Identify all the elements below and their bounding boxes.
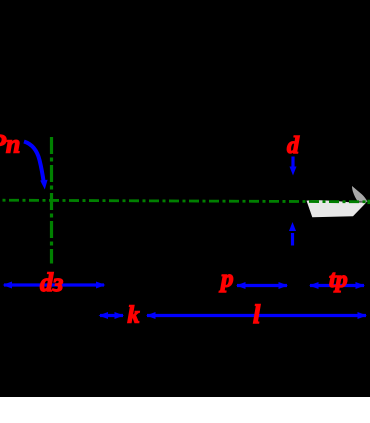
dz right arrowhead xyxy=(96,282,106,289)
tool chip flap xyxy=(352,186,368,202)
dimension l line xyxy=(147,314,366,317)
svg-text:Pn: Pn xyxy=(0,130,20,159)
k left arrowhead xyxy=(99,312,109,319)
horizontal centerline xyxy=(0,200,370,202)
svg-text:tp: tp xyxy=(329,267,348,293)
svg-text:l: l xyxy=(253,300,261,329)
rotation arrowhead xyxy=(40,180,47,190)
tp right arrowhead xyxy=(356,282,366,289)
rotation arrow (curved) xyxy=(24,142,44,185)
svg-text:d: d xyxy=(287,133,300,159)
l right arrowhead xyxy=(358,312,368,319)
p left arrowhead xyxy=(236,282,246,289)
d dimension lower arrow (points up) xyxy=(291,233,294,246)
cutting tool body xyxy=(307,200,367,217)
centerline end dash at right edge xyxy=(367,200,370,204)
l left arrowhead xyxy=(146,312,156,319)
d dimension upper arrow (points down) xyxy=(291,157,294,169)
dimension dz line xyxy=(4,283,104,286)
dimension p line xyxy=(237,284,287,287)
dimension tp line xyxy=(310,284,364,287)
vertical centerline xyxy=(50,137,53,264)
dimension k line xyxy=(100,314,123,317)
k right arrowhead xyxy=(115,312,125,319)
p right arrowhead xyxy=(279,282,289,289)
svg-text:k: k xyxy=(128,303,140,329)
dz left arrowhead xyxy=(3,282,13,289)
svg-text:p: p xyxy=(219,266,234,293)
svg-text:dз: dз xyxy=(40,268,63,297)
tp left arrowhead xyxy=(309,282,319,289)
white bottom strip xyxy=(0,397,370,423)
